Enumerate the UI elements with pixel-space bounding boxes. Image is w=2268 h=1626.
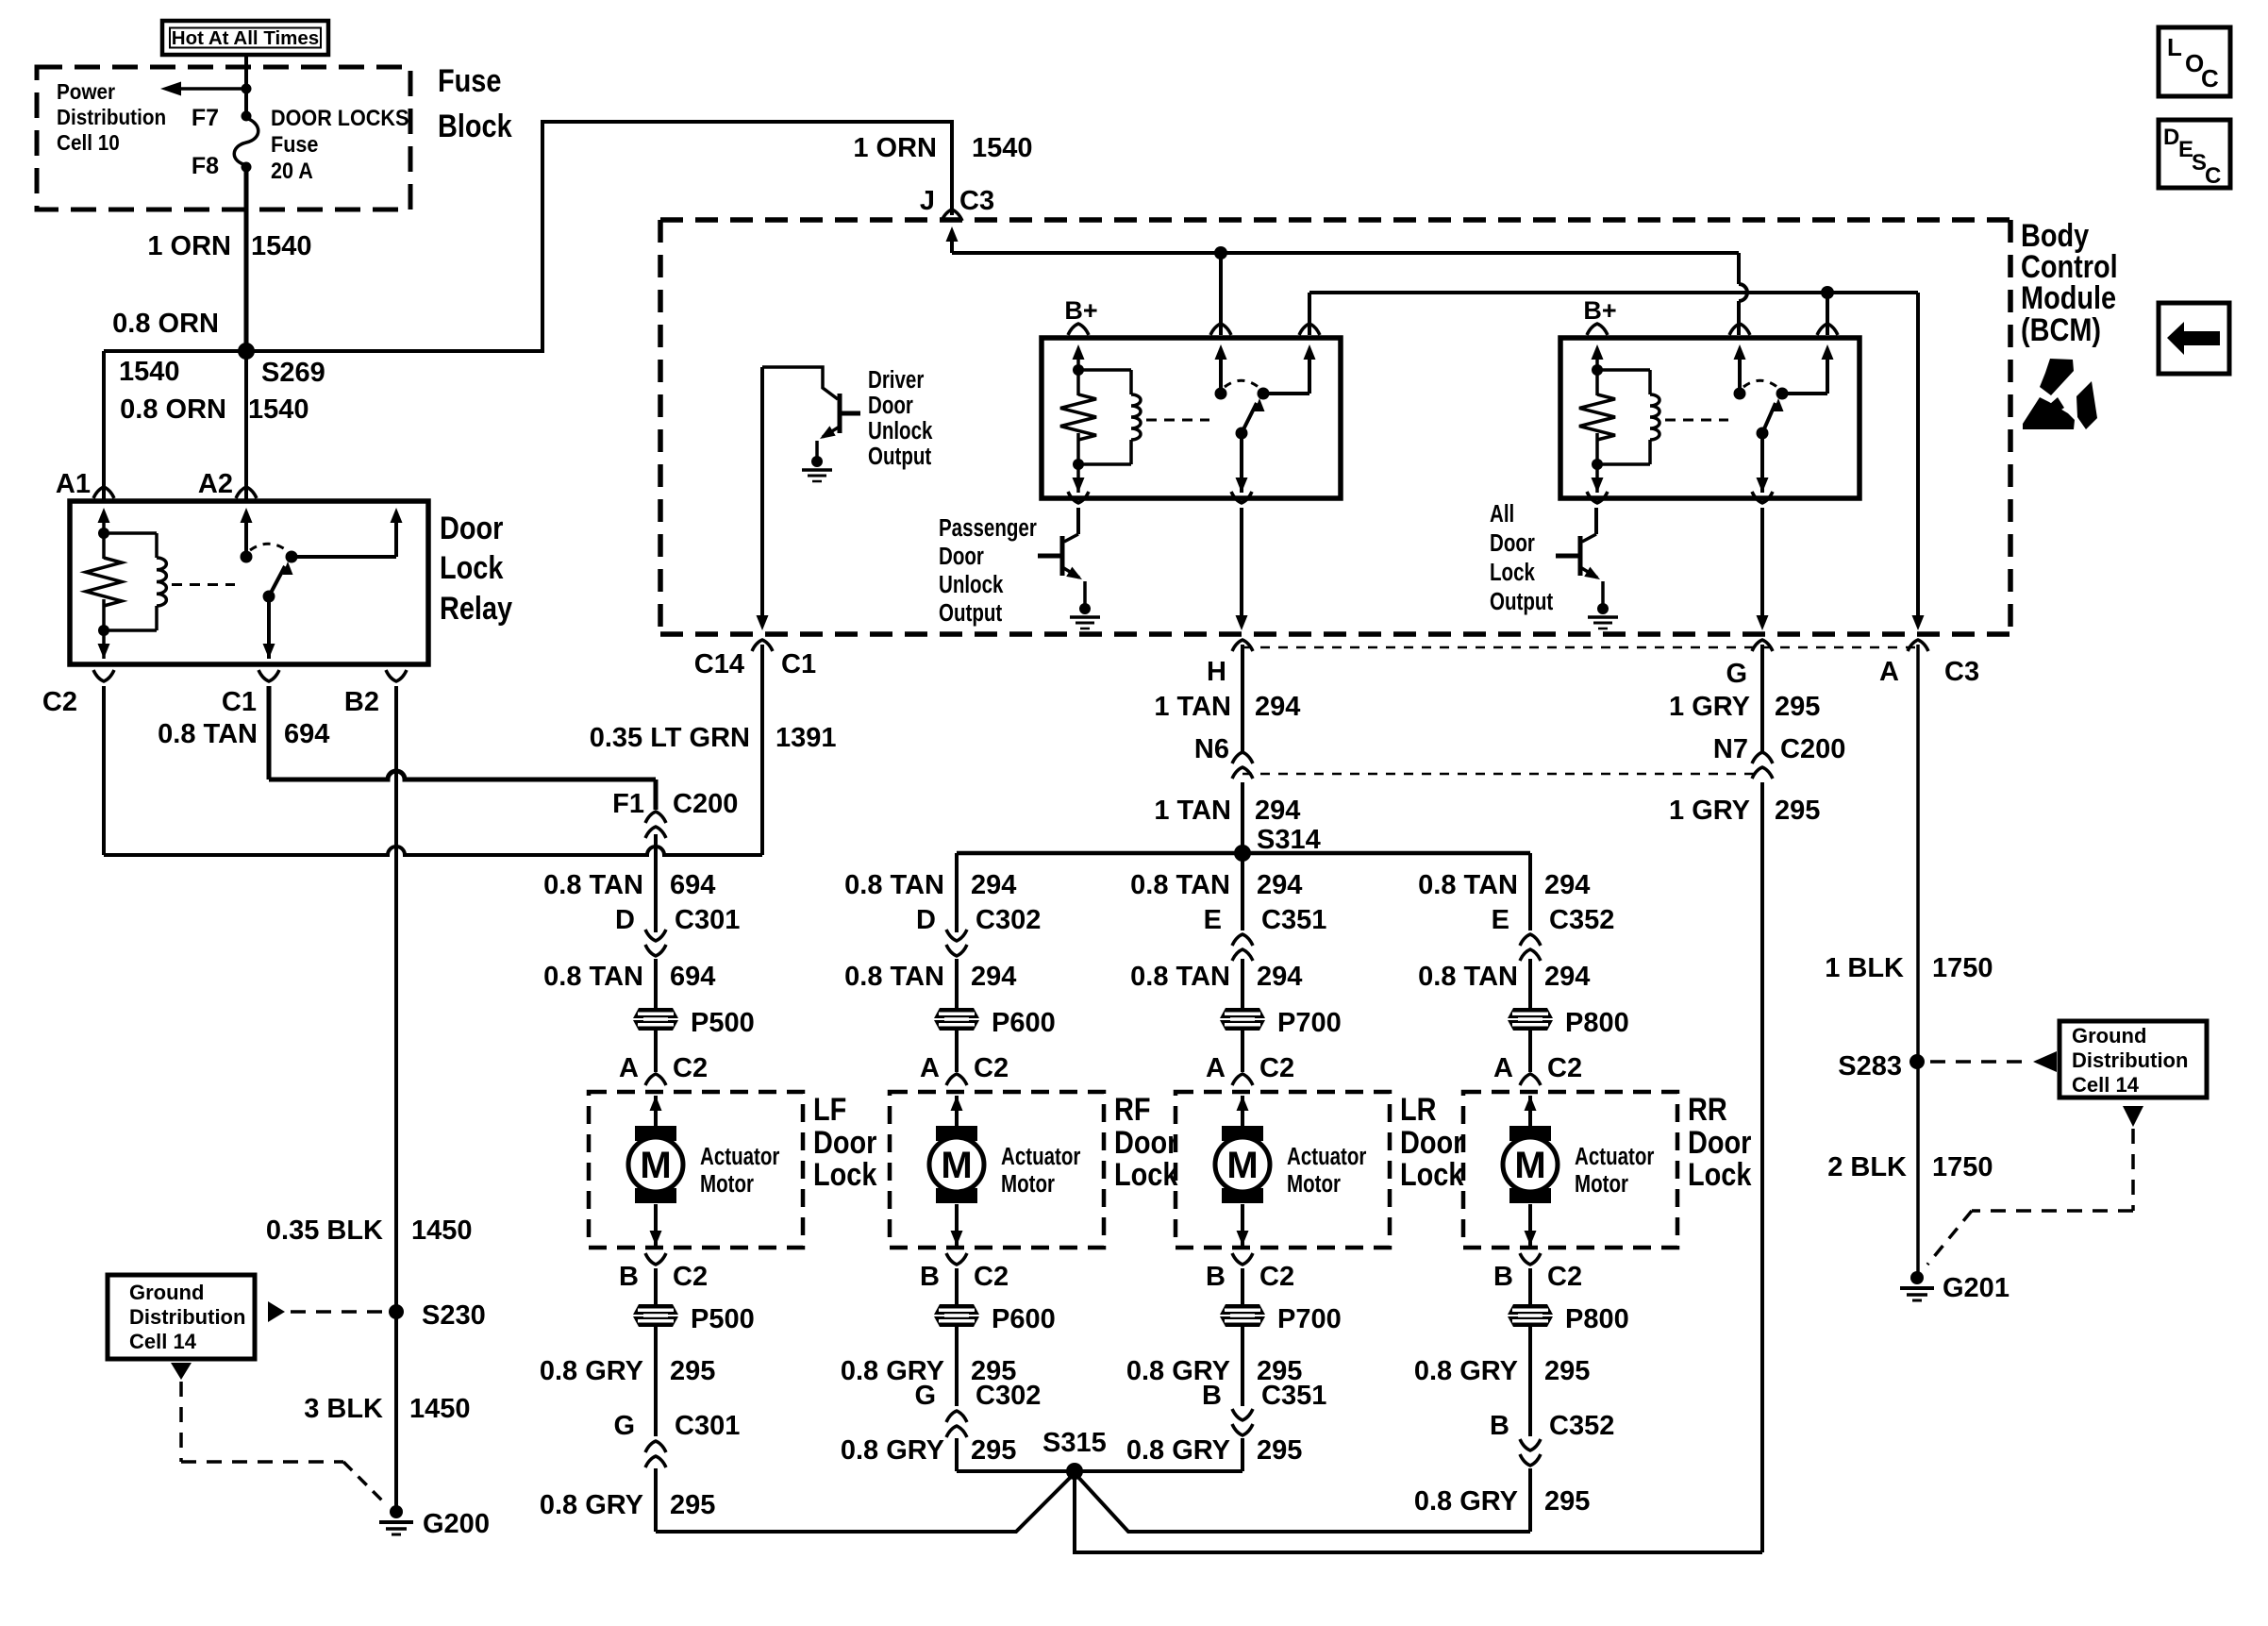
all door lock output label: [1490, 500, 1553, 615]
fuse block dashed box: [37, 67, 410, 210]
svg-text:C2: C2: [1259, 1053, 1294, 1083]
svg-text:C352: C352: [1549, 905, 1614, 935]
svg-text:295: 295: [670, 1356, 715, 1386]
label 0.8 TAN 294 above C302: [844, 870, 1016, 900]
svg-text:C2: C2: [673, 1053, 708, 1083]
wire C352 down: [1528, 1468, 1532, 1532]
label 1 TAN 294 above N6: [1154, 692, 1300, 722]
svg-text:All: All: [1490, 500, 1514, 528]
wire door connector B to P600: [955, 1268, 959, 1304]
svg-text:295: 295: [971, 1435, 1016, 1466]
svg-text:B2: B2: [344, 687, 379, 717]
pin labels A C3: [1879, 657, 1979, 687]
wire: BCM internal feed bus: [946, 226, 1740, 260]
label 0.8 GRY 295 upper: [540, 1356, 716, 1386]
svg-text:Output: Output: [868, 443, 931, 470]
svg-text:1540: 1540: [251, 231, 312, 261]
svg-text:Motor: Motor: [1287, 1170, 1341, 1198]
wire: S314 corner down to C302: [955, 853, 959, 932]
label 0.35 BLK 1450: [266, 1215, 473, 1246]
connector chevrons C352: [1520, 1439, 1541, 1466]
svg-text:P800: P800: [1565, 1008, 1629, 1038]
svg-text:1 BLK: 1 BLK: [1825, 953, 1904, 983]
svg-text:C301: C301: [675, 1411, 740, 1441]
pin labels A C2: [920, 1053, 1009, 1083]
BCM lock relay internals: [1577, 344, 1834, 493]
svg-text:0.8 TAN: 0.8 TAN: [543, 962, 643, 992]
svg-text:694: 694: [284, 719, 329, 749]
pin label E C351: [1204, 905, 1327, 935]
fuse F7/F8 DOOR LOCKS 20 A: [192, 105, 409, 183]
svg-text:B: B: [619, 1262, 639, 1292]
svg-text:0.8 GRY: 0.8 GRY: [1126, 1435, 1230, 1466]
connector chevron A C2: [645, 1074, 666, 1085]
wire P700 to C351: [1241, 1327, 1244, 1406]
wire out of LR actuator motor: [1237, 1204, 1249, 1246]
pin labels B C2: [619, 1262, 708, 1292]
grommet connector P500 lower: [633, 1304, 755, 1334]
label 0.8 GRY 295 upper: [1414, 1356, 1591, 1386]
svg-text:C2: C2: [673, 1262, 708, 1292]
label 0.8 TAN 294 above C351: [1130, 870, 1302, 900]
svg-text:Lock: Lock: [1400, 1156, 1464, 1193]
label 0.8 GRY 295 lower: [1126, 1435, 1303, 1466]
svg-text:B+: B+: [1583, 296, 1616, 325]
pin labels B C2: [920, 1262, 1009, 1292]
svg-text:N6: N6: [1194, 734, 1229, 764]
wire P700 to door connector A: [1241, 1031, 1244, 1072]
svg-text:Door: Door: [1114, 1124, 1177, 1161]
LR actuator motor: [1215, 1126, 1366, 1203]
label 0.8 TAN 294 below C302: [844, 962, 1016, 992]
svg-text:1 GRY: 1 GRY: [1669, 692, 1750, 722]
svg-text:A: A: [920, 1053, 940, 1083]
svg-text:C2: C2: [1259, 1262, 1294, 1292]
svg-text:1 ORN: 1 ORN: [853, 133, 937, 163]
connector chevron B C2: [1232, 1253, 1253, 1265]
label 1 BLK 1750: [1825, 953, 1993, 983]
wire door connector B to P500: [654, 1268, 658, 1304]
wire P600 to door connector A: [955, 1031, 959, 1072]
driver door unlock transistor Q1: [762, 367, 860, 621]
svg-text:G: G: [1726, 659, 1747, 689]
svg-text:B: B: [920, 1262, 940, 1292]
wire: relay C2 control return: [102, 686, 106, 855]
svg-text:Motor: Motor: [1575, 1170, 1628, 1198]
connector chevrons C2 C1 B2: [93, 670, 407, 681]
svg-text:S283: S283: [1838, 1051, 1902, 1081]
svg-text:RR: RR: [1688, 1091, 1727, 1128]
wire C302 to S315 bus: [955, 1438, 959, 1471]
RF door lock dashed box: [890, 1092, 1104, 1248]
svg-text:294: 294: [971, 870, 1016, 900]
connector chevron B C2: [946, 1253, 967, 1265]
svg-text:Door: Door: [868, 392, 913, 419]
svg-text:Lock: Lock: [1688, 1156, 1752, 1193]
svg-text:0.8 GRY: 0.8 GRY: [841, 1435, 944, 1466]
svg-text:F7: F7: [192, 105, 219, 131]
svg-text:C14: C14: [694, 649, 744, 679]
wire door connector B to P700: [1241, 1268, 1244, 1304]
svg-text:P500: P500: [691, 1008, 755, 1038]
label 0.8 TAN 694: [158, 719, 329, 749]
svg-text:0.8 TAN: 0.8 TAN: [1130, 870, 1230, 900]
grommet connector P800 upper: [1508, 1008, 1629, 1038]
LF door lock label: [813, 1091, 877, 1193]
ground G201: [1900, 1271, 2010, 1303]
svg-text:1450: 1450: [411, 1215, 473, 1246]
LR door lock label: [1400, 1091, 1464, 1193]
pin label B C351: [1202, 1381, 1326, 1411]
svg-text:F1: F1: [612, 789, 644, 819]
svg-text:LR: LR: [1400, 1091, 1437, 1128]
wire: S283 to G201 (2 BLK 1750): [1916, 1062, 1920, 1274]
wire: S269 left to relay A1: [104, 351, 246, 501]
svg-text:C1: C1: [222, 687, 257, 717]
wire: BCM G to N7 (1 GRY 295): [1760, 645, 1764, 752]
svg-text:295: 295: [1257, 1435, 1302, 1466]
wire: relay B2 down to G200: [394, 686, 398, 1508]
wire: lock bus down to BCM pin A: [1912, 615, 1925, 630]
wire into LR actuator motor: [1237, 1096, 1249, 1126]
pin label D C301: [615, 905, 740, 935]
label 0.8 GRY 295 lower: [841, 1435, 1017, 1466]
grommet connector P600 upper: [934, 1008, 1056, 1038]
svg-text:294: 294: [1257, 870, 1302, 900]
passenger door unlock output label: [939, 514, 1037, 627]
connector chevrons A1 A2: [93, 487, 257, 498]
grommet connector P500 upper: [633, 1008, 755, 1038]
label 1 TAN 294 below N6: [1154, 796, 1300, 826]
svg-text:1 TAN: 1 TAN: [1154, 796, 1231, 826]
svg-text:S230: S230: [422, 1300, 486, 1331]
svg-text:C3: C3: [959, 186, 994, 216]
svg-text:Ground: Ground: [129, 1281, 204, 1304]
svg-text:1 GRY: 1 GRY: [1669, 796, 1750, 826]
svg-text:Door: Door: [1688, 1124, 1751, 1161]
pin label G C301: [613, 1411, 740, 1441]
svg-text:G: G: [613, 1411, 635, 1441]
splice S283: [1838, 1051, 1925, 1081]
svg-text:Lock: Lock: [813, 1156, 877, 1193]
wire P500 to C301: [654, 1327, 658, 1436]
wire: C14 C1 0.35 LT GRN 1391 to relay coil C2: [104, 645, 762, 855]
svg-text:C2: C2: [1547, 1053, 1582, 1083]
svg-text:Actuator: Actuator: [1575, 1143, 1654, 1170]
wire: BCM H to S314 (1 TAN 294): [1241, 645, 1244, 853]
label S315: [1042, 1428, 1107, 1458]
svg-text:C351: C351: [1261, 1381, 1326, 1411]
arrow to power distribution: [160, 82, 246, 96]
RR actuator motor: [1503, 1126, 1654, 1203]
wire C301 down: [654, 1468, 658, 1532]
connector chevrons C302: [946, 930, 967, 956]
pin labels N7 C200: [1713, 734, 1845, 764]
wire out of LF actuator motor: [650, 1204, 662, 1246]
svg-text:295: 295: [1775, 692, 1820, 722]
svg-text:Door: Door: [939, 543, 984, 570]
back arrow navigation box: [2159, 303, 2229, 374]
all door lock transistor Q3: [1556, 508, 1603, 607]
label 0.8 ORN 1540 second: [120, 394, 309, 425]
label 0.8 TAN 694 below C301: [543, 962, 715, 992]
ground at all door lock transistor: [1588, 603, 1618, 629]
svg-text:Door: Door: [1490, 529, 1535, 557]
svg-text:P600: P600: [992, 1008, 1056, 1038]
svg-text:Cell 14: Cell 14: [2072, 1073, 2140, 1097]
svg-text:Distribution: Distribution: [129, 1305, 245, 1329]
svg-text:1540: 1540: [972, 133, 1033, 163]
svg-text:J: J: [920, 186, 935, 216]
connector chevrons F1 C200: [645, 812, 666, 838]
label 3 BLK 1450: [304, 1394, 470, 1424]
pin label B C352: [1490, 1411, 1614, 1441]
svg-text:A1: A1: [56, 469, 91, 499]
wire: S314 distribution to RF and RR branches: [957, 851, 1530, 856]
wire: F1 down through C301 (0.8 TAN 694): [654, 834, 658, 932]
svg-text:Relay: Relay: [440, 590, 513, 627]
svg-text:Lock: Lock: [1490, 559, 1536, 586]
label B+ lock relay: [1583, 296, 1616, 325]
svg-text:295: 295: [1775, 796, 1820, 826]
wire: S314 down through C351: [1241, 853, 1244, 930]
ground distribution cell 14 box left: [108, 1275, 255, 1359]
wire: feed over to lock relay coil pin with hop: [1739, 253, 1747, 335]
connector chevrons C351: [1232, 1409, 1253, 1435]
label 0.8 TAN 294 below C352: [1418, 962, 1590, 992]
wire: driver output down to BCM pin C14: [757, 615, 769, 630]
svg-text:1750: 1750: [1932, 953, 1993, 983]
connector chevrons C301: [645, 1441, 666, 1467]
svg-text:G200: G200: [423, 1509, 490, 1539]
wire P800 to C352: [1528, 1327, 1532, 1436]
svg-text:C302: C302: [976, 1381, 1041, 1411]
label box: Hot At All Times: [162, 21, 328, 55]
svg-text:3 BLK: 3 BLK: [304, 1394, 383, 1424]
grommet connector P600 lower: [934, 1304, 1056, 1334]
wire: fuse output down to S269: [244, 170, 249, 351]
svg-text:0.8 GRY: 0.8 GRY: [540, 1490, 643, 1520]
svg-text:E: E: [1204, 905, 1222, 935]
ground G200: [379, 1505, 490, 1539]
svg-text:M: M: [1514, 1145, 1545, 1186]
wire C351 to S315 bus: [1241, 1438, 1244, 1471]
wire: BCM A C3 to S283 (1 BLK 1750): [1916, 645, 1920, 1062]
connector chevron A C2: [1232, 1074, 1253, 1085]
wire: lock bus between relay NO contacts and A C3 output: [1309, 286, 1918, 621]
svg-text:294: 294: [1255, 796, 1300, 826]
LF door lock dashed box: [589, 1092, 803, 1248]
svg-text:Passenger: Passenger: [939, 514, 1037, 542]
ground distribution cell 14 box right: [2060, 1021, 2207, 1098]
svg-text:Fuse: Fuse: [271, 131, 318, 157]
svg-text:0.35 BLK: 0.35 BLK: [266, 1215, 383, 1246]
label 1 ORN 1540: [147, 231, 311, 261]
svg-text:C352: C352: [1549, 1411, 1614, 1441]
label 0.8 GRY 295 lower: [1414, 1486, 1591, 1517]
svg-text:P600: P600: [992, 1304, 1056, 1334]
label 0.8 GRY 295 upper: [841, 1356, 1017, 1386]
wire door connector B to P800: [1528, 1268, 1532, 1304]
wire into RR actuator motor: [1525, 1096, 1537, 1126]
wire: battery feed into fuse block: [242, 55, 252, 115]
svg-text:294: 294: [1257, 962, 1302, 992]
wire P600 to C302: [955, 1327, 959, 1406]
svg-text:Distribution: Distribution: [57, 105, 166, 129]
connector chevrons N7: [1752, 752, 1773, 779]
wire segment into P700: [1241, 959, 1244, 1008]
svg-text:0.8 GRY: 0.8 GRY: [1414, 1486, 1518, 1517]
svg-text:C200: C200: [673, 789, 738, 819]
svg-text:DOOR LOCKS: DOOR LOCKS: [271, 105, 409, 130]
svg-text:295: 295: [1544, 1486, 1590, 1517]
svg-text:Door: Door: [440, 510, 503, 546]
connector chevrons C352: [1520, 934, 1541, 961]
svg-text:L: L: [2167, 33, 2182, 61]
connector chevron J C3: [942, 210, 962, 221]
RR door lock label: [1688, 1091, 1752, 1193]
svg-text:1450: 1450: [409, 1394, 471, 1424]
svg-text:Lock: Lock: [1114, 1156, 1178, 1193]
svg-text:Block: Block: [438, 108, 512, 144]
svg-text:P700: P700: [1277, 1008, 1342, 1038]
svg-text:F8: F8: [192, 153, 219, 179]
svg-text:C200: C200: [1780, 734, 1845, 764]
svg-text:A: A: [619, 1053, 639, 1083]
door lock relay internals: coil, resistor, switch: [84, 508, 403, 659]
wire segment into P600: [955, 959, 959, 1008]
splice S314: [1234, 845, 1251, 862]
wire: S315 to lock feed bus from N7: [1075, 1471, 1762, 1552]
svg-text:0.8 GRY: 0.8 GRY: [1414, 1356, 1518, 1386]
svg-text:B+: B+: [1064, 296, 1097, 325]
pin label G C302: [914, 1381, 1041, 1411]
svg-text:295: 295: [1544, 1356, 1590, 1386]
svg-text:A: A: [1206, 1053, 1226, 1083]
grommet connector P800 lower: [1508, 1304, 1629, 1334]
wire segment into P500: [654, 959, 658, 1008]
pin label G: [1726, 659, 1747, 689]
svg-text:0.8 GRY: 0.8 GRY: [540, 1356, 643, 1386]
chevrons at lock relay pins: [1587, 324, 1838, 503]
connector chevrons C351: [1232, 934, 1253, 961]
connector chevron A C2: [946, 1074, 967, 1085]
svg-text:0.8 TAN: 0.8 TAN: [844, 870, 944, 900]
svg-text:RF: RF: [1114, 1091, 1151, 1128]
LR door lock dashed box: [1176, 1092, 1390, 1248]
door lock relay box: [70, 501, 428, 664]
connector chevrons N6: [1232, 752, 1253, 779]
svg-text:Cell 14: Cell 14: [129, 1330, 197, 1353]
DESC reference box: [2159, 120, 2230, 189]
LF actuator motor: [628, 1126, 779, 1203]
svg-text:S315: S315: [1042, 1428, 1107, 1458]
svg-text:C1: C1: [781, 649, 816, 679]
svg-text:1750: 1750: [1932, 1152, 1993, 1182]
svg-text:C: C: [2205, 163, 2221, 189]
svg-text:H: H: [1207, 657, 1226, 687]
label 0.8 GRY 295 upper: [1126, 1356, 1303, 1386]
svg-text:1540: 1540: [119, 357, 180, 387]
svg-text:E: E: [1492, 905, 1509, 935]
svg-text:LF: LF: [813, 1091, 846, 1128]
pin labels A C2: [619, 1053, 708, 1083]
svg-text:Cell 10: Cell 10: [57, 130, 120, 155]
svg-text:C301: C301: [675, 905, 740, 935]
svg-text:1540: 1540: [248, 394, 309, 425]
door lock relay label: [440, 510, 513, 627]
pin label H: [1207, 657, 1226, 687]
label 0.8 ORN 1540 S269: [112, 309, 325, 388]
svg-text:D: D: [916, 905, 936, 935]
chevrons at BCM bottom pins C14 H G A: [752, 640, 1928, 651]
pin labels A C2: [1206, 1053, 1294, 1083]
pin labels C14 C1: [694, 649, 816, 679]
wire: RR leg to S315: [1075, 1473, 1530, 1532]
label 2 BLK 1750: [1827, 1152, 1993, 1182]
splice S269: [238, 343, 255, 360]
wire: lock relay armature down to BCM pin G: [1757, 508, 1769, 630]
svg-text:B: B: [1493, 1262, 1513, 1292]
svg-text:1 TAN: 1 TAN: [1154, 692, 1231, 722]
svg-text:Power: Power: [57, 79, 116, 104]
svg-text:Hot At All Times: Hot At All Times: [172, 27, 319, 49]
wire: LF leg to S315: [656, 1473, 1075, 1532]
wire P500 to door connector A: [654, 1031, 658, 1072]
pin labels F1 C200: [612, 789, 738, 819]
label 0.8 TAN 694 above C301: [543, 870, 715, 900]
svg-text:S269: S269: [261, 358, 325, 388]
wire: S314 corner down to C352: [1528, 853, 1532, 930]
label 1 GRY 295 below N7: [1669, 796, 1820, 826]
svg-text:C351: C351: [1261, 905, 1326, 935]
svg-text:C2: C2: [974, 1262, 1009, 1292]
body control module label: [2021, 217, 2118, 348]
BCM unlock relay internals: [1059, 344, 1316, 493]
svg-text:D: D: [2163, 125, 2179, 150]
svg-text:Door: Door: [813, 1124, 876, 1161]
svg-text:C2: C2: [1547, 1262, 1582, 1292]
label 0.8 TAN 294 above C352: [1418, 870, 1590, 900]
wire: S269 down to relay A2: [244, 351, 248, 501]
pin labels C2 C1 B2: [42, 687, 379, 717]
svg-text:P800: P800: [1565, 1304, 1629, 1334]
splice S230: [389, 1300, 486, 1331]
wire: N7 down to S315 bus: [1760, 782, 1764, 1552]
passenger door unlock transistor Q2: [1038, 508, 1085, 607]
wire out of RF actuator motor: [951, 1204, 963, 1246]
driver door unlock output label: [868, 366, 933, 470]
svg-text:0.8 ORN: 0.8 ORN: [120, 394, 226, 425]
dashed reference ground distribution to S230: [268, 1301, 385, 1322]
svg-text:Fuse: Fuse: [438, 62, 501, 99]
svg-text:P700: P700: [1277, 1304, 1342, 1334]
svg-text:B: B: [1206, 1262, 1226, 1292]
BCM unlock relay box: [1042, 338, 1341, 498]
svg-text:Module: Module: [2021, 279, 2116, 316]
pin labels A1 A2: [56, 469, 233, 499]
RF actuator motor: [929, 1126, 1080, 1203]
svg-text:Actuator: Actuator: [1287, 1143, 1366, 1170]
wire: feed to unlock relay coil pin: [1219, 253, 1223, 335]
wire into RF actuator motor: [951, 1096, 963, 1126]
svg-text:B: B: [1490, 1411, 1509, 1441]
svg-text:Distribution: Distribution: [2072, 1048, 2188, 1072]
pin labels B C2: [1493, 1262, 1582, 1292]
svg-text:A: A: [1493, 1053, 1513, 1083]
svg-text:C: C: [2201, 64, 2219, 92]
svg-text:294: 294: [971, 962, 1016, 992]
